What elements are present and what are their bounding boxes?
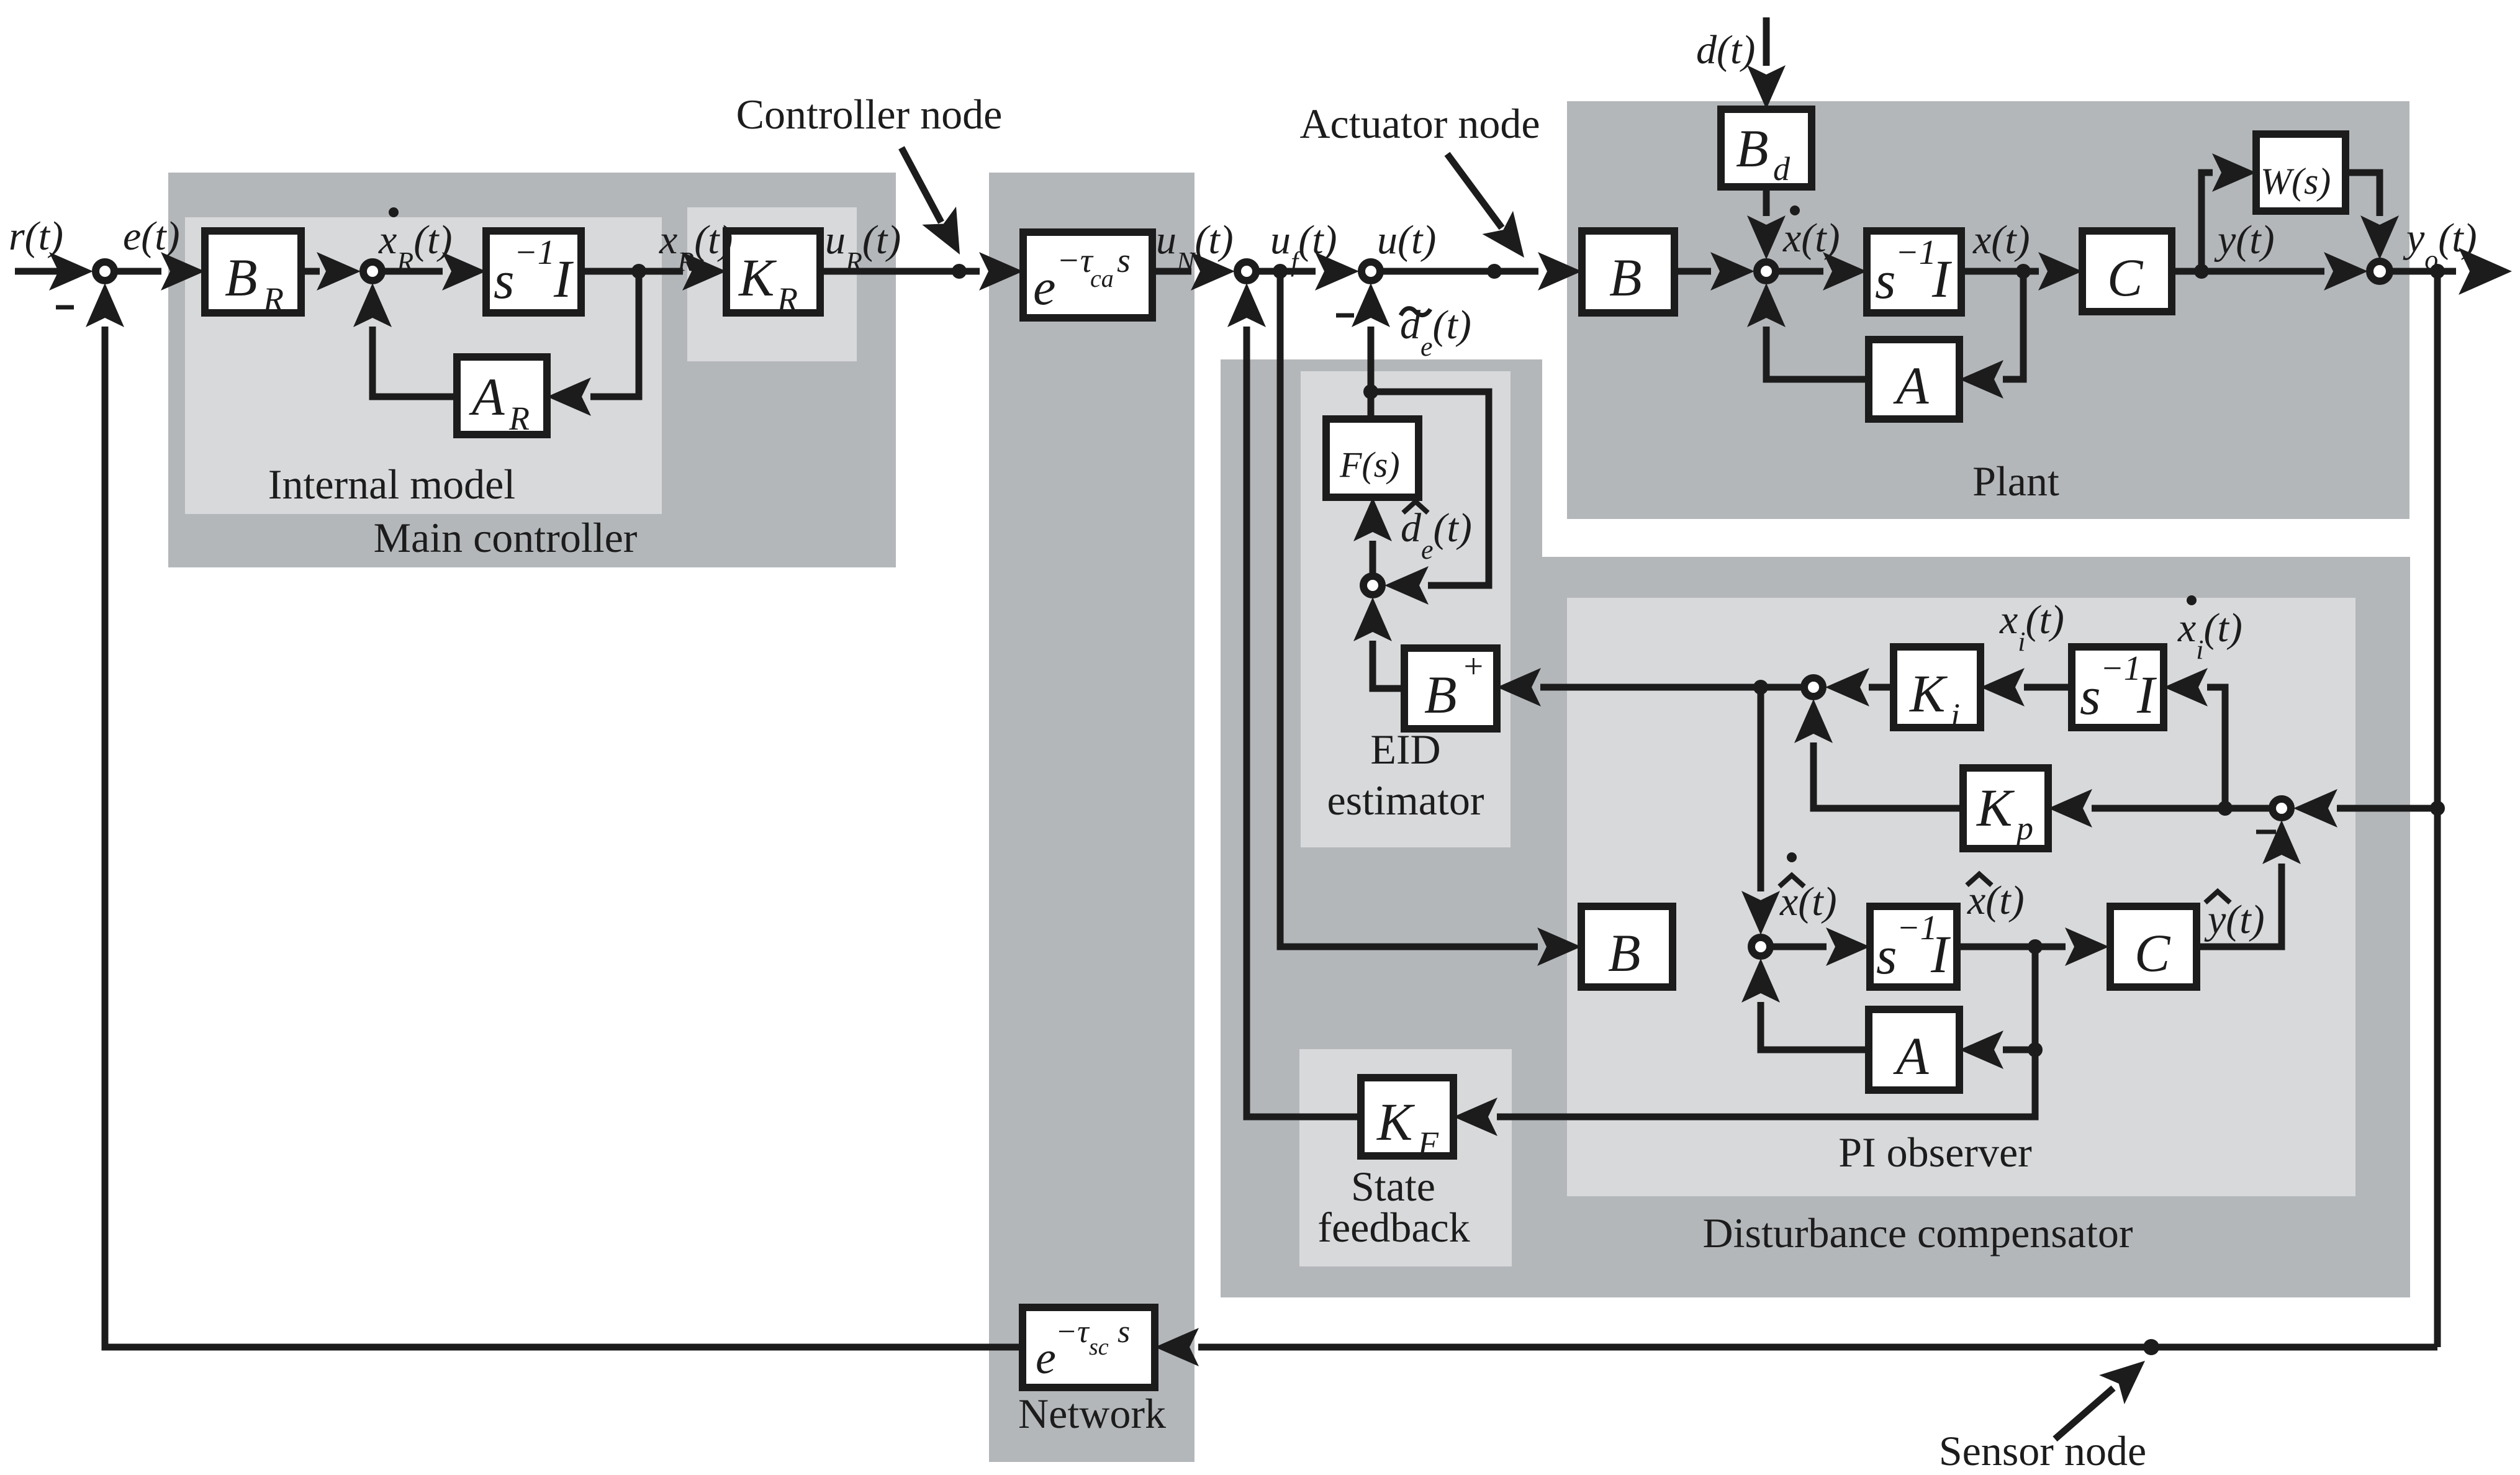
- svg-text:C: C: [2134, 923, 2171, 983]
- label y_o(t): [2403, 215, 2477, 275]
- wire u_f down to observer B: [1280, 271, 1581, 966]
- svg-text:Main controller: Main controller: [374, 514, 638, 561]
- wire integrator to K_R with x_R takeoff: [581, 252, 726, 291]
- region Disturbance compensator (dark gray): [1221, 557, 2410, 1297]
- block delay e-tau_sc (sensor to controller): [1023, 1307, 1155, 1387]
- wire S5 to plant integrator: [1775, 252, 1867, 291]
- wire S10 output to K_p with xi branch: [2048, 789, 2270, 828]
- node sum S5 (plant state sum): [1757, 262, 1776, 281]
- svg-text:s: s: [494, 250, 514, 310]
- wire K_i to S8: [1825, 668, 1894, 706]
- svg-text:s: s: [2080, 666, 2100, 726]
- svg-text:Actuator node: Actuator node: [1299, 100, 1540, 147]
- svg-text:Internal model: Internal model: [268, 461, 515, 508]
- wire bottom feedback to e-tsc: [1155, 1328, 2437, 1366]
- svg-text:estimator: estimator: [1327, 777, 1484, 824]
- label xhatdot(t): [1779, 852, 1837, 924]
- svg-text:B: B: [1609, 248, 1642, 307]
- node sum S10 (y_o - y_hat): [2272, 799, 2291, 818]
- svg-text:r(t): r(t): [9, 214, 63, 259]
- node xhat takeoff dot: [2028, 939, 2043, 954]
- svg-text:−1: −1: [1895, 233, 1936, 272]
- node observer A branch dot: [2028, 1042, 2043, 1057]
- region Internal model (light gray): [185, 217, 662, 514]
- wire e-tsc to S1: [86, 283, 1023, 1347]
- svg-text:x(t): x(t): [1972, 217, 2030, 263]
- wire B+ to S7: [1353, 597, 1404, 688]
- block plant B: [1582, 231, 1674, 313]
- region Main controller (dark gray): [168, 173, 896, 567]
- svg-text:C: C: [2107, 248, 2144, 307]
- label d_e tilde(t): [1400, 302, 1471, 362]
- annotation arrow actuator node: [1447, 154, 1540, 269]
- node sensor node dot: [2143, 1339, 2159, 1355]
- node sum S3 (u_N + state feedback): [1237, 262, 1256, 281]
- label x(t): [1972, 217, 2030, 263]
- wire y to W(s): [2202, 153, 2256, 271]
- block plant C: [2082, 231, 2172, 312]
- svg-text:x(t): x(t): [1779, 879, 1837, 924]
- svg-text:I: I: [553, 249, 574, 309]
- svg-text:I: I: [1930, 924, 1951, 984]
- label xdot(t): [1782, 205, 1840, 261]
- svg-text:s: s: [1118, 1314, 1130, 1350]
- region State feedback (light gray): [1299, 1049, 1512, 1266]
- annotation arrow controller node: [901, 148, 977, 264]
- svg-text:d(t): d(t): [1696, 27, 1755, 73]
- svg-text:B: B: [1736, 119, 1769, 178]
- svg-text:−τ: −τ: [1055, 1314, 1090, 1350]
- block observer A: [1869, 1009, 1959, 1090]
- wire K_R to network delay with controller node: [820, 252, 1023, 291]
- block W(s): [2256, 134, 2346, 211]
- wire observer A to S9: [1741, 959, 1869, 1050]
- wire junction down to observer sum S9: [1741, 687, 1780, 935]
- wire S9 to observer integrator: [1769, 927, 1870, 966]
- svg-text:e: e: [1033, 259, 1055, 315]
- node y takeoff dot: [2194, 264, 2209, 279]
- wire B_d to S5: [1747, 187, 1786, 259]
- svg-text:feedback: feedback: [1317, 1204, 1470, 1251]
- wire r(t) input: [15, 252, 93, 291]
- svg-text:e(t): e(t): [123, 214, 180, 259]
- block plant A: [1869, 340, 1959, 419]
- wire xhat down to K_F: [1453, 1050, 2035, 1136]
- wire plant B to S5: [1674, 252, 1755, 291]
- wire S4 to plant B with actuator node: [1380, 252, 1582, 291]
- svg-text:F: F: [1417, 1125, 1439, 1162]
- wire integrator xi to K_i: [1980, 668, 2072, 706]
- node x takeoff dot: [2016, 264, 2031, 279]
- wire F(s) top to d_e node: [1368, 392, 1375, 419]
- wire observer A feedback from xhat: [1959, 947, 2035, 1069]
- block A_R: [457, 357, 547, 437]
- wire S7 up to F(s): [1353, 497, 1392, 574]
- svg-text:Plant: Plant: [1972, 458, 2059, 505]
- svg-text:Sensor node: Sensor node: [1939, 1427, 2146, 1474]
- label xdot_R(t): [378, 207, 452, 277]
- wire d(t) into B_d: [1747, 17, 1786, 109]
- node x_R takeoff dot: [631, 264, 646, 279]
- svg-text:A: A: [1893, 356, 1929, 415]
- wire S1 to B_R: [114, 252, 205, 291]
- svg-text:B: B: [225, 248, 258, 307]
- wire observer C to S10: [2197, 820, 2301, 947]
- region EID estimator (light gray): [1301, 371, 1511, 847]
- block plant integrator s-1I: [1867, 231, 1961, 313]
- minus sign at S1: [56, 305, 74, 310]
- svg-text:R: R: [263, 281, 284, 318]
- wire plant A to S5: [1747, 283, 1869, 379]
- svg-text:x(t): x(t): [1967, 878, 2025, 923]
- wire y_o feedback vertical: [2434, 271, 2441, 1347]
- svg-text:F(s): F(s): [1339, 444, 1400, 485]
- svg-text:y(t): y(t): [2204, 897, 2265, 942]
- svg-text:i: i: [1951, 697, 1960, 734]
- block B+: [1404, 647, 1497, 729]
- block integrator s-1I (xi): [2072, 647, 2164, 728]
- wire y_o feedback into S10: [2293, 789, 2437, 828]
- wire S2 to integrator: [381, 252, 486, 291]
- svg-text:R: R: [508, 400, 530, 437]
- wire A_R feedback loop: [547, 271, 639, 416]
- label PI observer: [1838, 1129, 2032, 1176]
- svg-text:W(s): W(s): [2260, 161, 2331, 202]
- label y(t): [2214, 217, 2275, 263]
- svg-text:−τ: −τ: [1057, 241, 1094, 280]
- label yhat(t): [2204, 891, 2265, 942]
- svg-text:B: B: [1608, 923, 1641, 983]
- svg-text:ca: ca: [1090, 264, 1114, 292]
- svg-text:K: K: [1976, 778, 2015, 837]
- svg-text:u(t): u(t): [1377, 217, 1436, 263]
- block observer integrator s-1I: [1870, 906, 1957, 987]
- block K_R: [726, 231, 820, 318]
- region Network (dark gray vertical band): [989, 173, 1195, 1462]
- svg-text:Controller node: Controller node: [736, 91, 1003, 138]
- node actuator node dot: [1487, 264, 1502, 279]
- wire xi branch up into integrator: [2164, 668, 2225, 808]
- svg-text:A: A: [1893, 1026, 1929, 1086]
- svg-text:s: s: [1876, 926, 1897, 985]
- region PI observer (light gray): [1567, 598, 2355, 1196]
- wire observer integrator to C with xhat takeoff: [1957, 927, 2109, 966]
- region K_R highlight (light gray): [687, 207, 857, 361]
- block K_i: [1894, 647, 1980, 734]
- label xhat(t): [1967, 874, 2025, 923]
- svg-text:I: I: [2136, 665, 2157, 724]
- node sum S1 (r-e junction): [96, 262, 114, 281]
- block observer C: [2110, 906, 2197, 987]
- wire d_e tilde into S4: [1352, 283, 1390, 392]
- minus sign at S4: [1336, 313, 1354, 318]
- node sum S9 (observer state sum): [1751, 937, 1770, 956]
- label d_e hat(t): [1401, 502, 1472, 565]
- wire B_R to S2: [301, 252, 361, 291]
- svg-text:Network: Network: [1018, 1390, 1166, 1437]
- wire delay e-tca to S3: [1152, 252, 1235, 291]
- wire y_o output: [2389, 248, 2512, 295]
- node controller node dot: [952, 264, 967, 279]
- wire plant A feedback from x: [1959, 271, 2023, 399]
- svg-text:−1: −1: [2100, 649, 2141, 688]
- label u_f(t): [1270, 217, 1337, 277]
- label Internal model: [268, 461, 515, 508]
- block B_d: [1721, 109, 1812, 187]
- node y_o takeoff dot: [2430, 264, 2445, 279]
- label Network: [1018, 1390, 1166, 1437]
- svg-text:B: B: [1424, 665, 1457, 724]
- node sum S8 (K_i + K_p): [1804, 678, 1823, 697]
- svg-text:+: +: [1461, 647, 1485, 686]
- wire K_p elbow into S8 from below: [1794, 699, 1963, 808]
- svg-text:EID: EID: [1370, 726, 1440, 773]
- label Main controller: [374, 514, 638, 561]
- node d_e takeoff dot above F(s): [1363, 384, 1378, 399]
- svg-text:sc: sc: [1089, 1334, 1109, 1360]
- svg-text:R: R: [777, 281, 798, 318]
- block K_F: [1361, 1078, 1453, 1162]
- label u_N(t): [1156, 217, 1234, 277]
- label Disturbance compensator: [1703, 1209, 2133, 1256]
- label e(t): [123, 214, 180, 259]
- label State feedback: [1317, 1163, 1470, 1251]
- label x_R(t): [659, 217, 733, 277]
- minus sign at S10: [2256, 830, 2276, 834]
- svg-text:PI observer: PI observer: [1838, 1129, 2032, 1176]
- svg-text:K: K: [738, 248, 777, 307]
- node sum S2 (internal model junction): [363, 262, 382, 281]
- label u(t): [1377, 217, 1436, 263]
- wire A_R to S2: [353, 283, 457, 397]
- block F(s): [1326, 419, 1419, 497]
- label u_R(t): [825, 217, 901, 277]
- svg-text:−1: −1: [514, 233, 555, 272]
- wire W(s) to y_o sum: [2346, 173, 2399, 259]
- region Plant (dark gray): [1567, 101, 2409, 519]
- label d(t): [1696, 27, 1755, 73]
- wire S3 to S4 with u_f takeoff: [1255, 252, 1359, 291]
- svg-text:K: K: [1376, 1092, 1416, 1152]
- label Actuator node: [1299, 100, 1540, 147]
- region EID estimator outer column (dark gray): [1221, 359, 1542, 564]
- block integrator s-1I (internal model): [486, 231, 581, 313]
- svg-text:p: p: [2014, 810, 2033, 847]
- block B_R: [205, 231, 301, 318]
- label EID estimator: [1327, 726, 1484, 824]
- node sum S7 (d_e hat junction): [1363, 576, 1382, 595]
- label Plant: [1972, 458, 2059, 505]
- label x_i(t): [1999, 597, 2064, 657]
- svg-text:A: A: [469, 367, 505, 426]
- annotation arrow sensor node: [2055, 1346, 2157, 1439]
- node sum S4 (u_f - d_e): [1362, 262, 1380, 281]
- node sum S6 (y_o junction): [2370, 261, 2390, 281]
- svg-text:s: s: [1117, 241, 1131, 280]
- svg-text:s: s: [1875, 250, 1895, 310]
- svg-text:e: e: [1036, 1333, 1056, 1384]
- block delay e-tau_ca (controller to actuator): [1023, 232, 1152, 318]
- wire S8 output to B+: [1497, 668, 1802, 706]
- node u_f takeoff dot: [1273, 264, 1288, 279]
- svg-text:I: I: [1931, 249, 1952, 309]
- svg-text:x(t): x(t): [1782, 215, 1840, 261]
- svg-text:y(t): y(t): [2214, 217, 2275, 263]
- wire C to y_o sum with y takeoff: [2172, 252, 2368, 291]
- wire d_e loop around F(s): [1371, 392, 1489, 605]
- svg-text:d: d: [1773, 150, 1791, 187]
- block K_p: [1963, 768, 2048, 849]
- node B+ line junction dot: [1753, 680, 1768, 695]
- svg-text:Disturbance compensator: Disturbance compensator: [1703, 1209, 2133, 1256]
- label xdot_i(t): [2177, 595, 2242, 665]
- wire K_F to S3: [1227, 283, 1361, 1117]
- label r(t): [9, 214, 63, 259]
- svg-text:State: State: [1351, 1163, 1435, 1210]
- label Sensor node: [1939, 1427, 2146, 1474]
- svg-text:K: K: [1908, 664, 1948, 723]
- label Controller node: [736, 91, 1003, 138]
- block observer B: [1581, 906, 1673, 987]
- node xi branch dot: [2218, 801, 2233, 816]
- node y_o feedback branch dot: [2430, 801, 2445, 816]
- wire plant integrator to C with x takeoff: [1961, 252, 2082, 291]
